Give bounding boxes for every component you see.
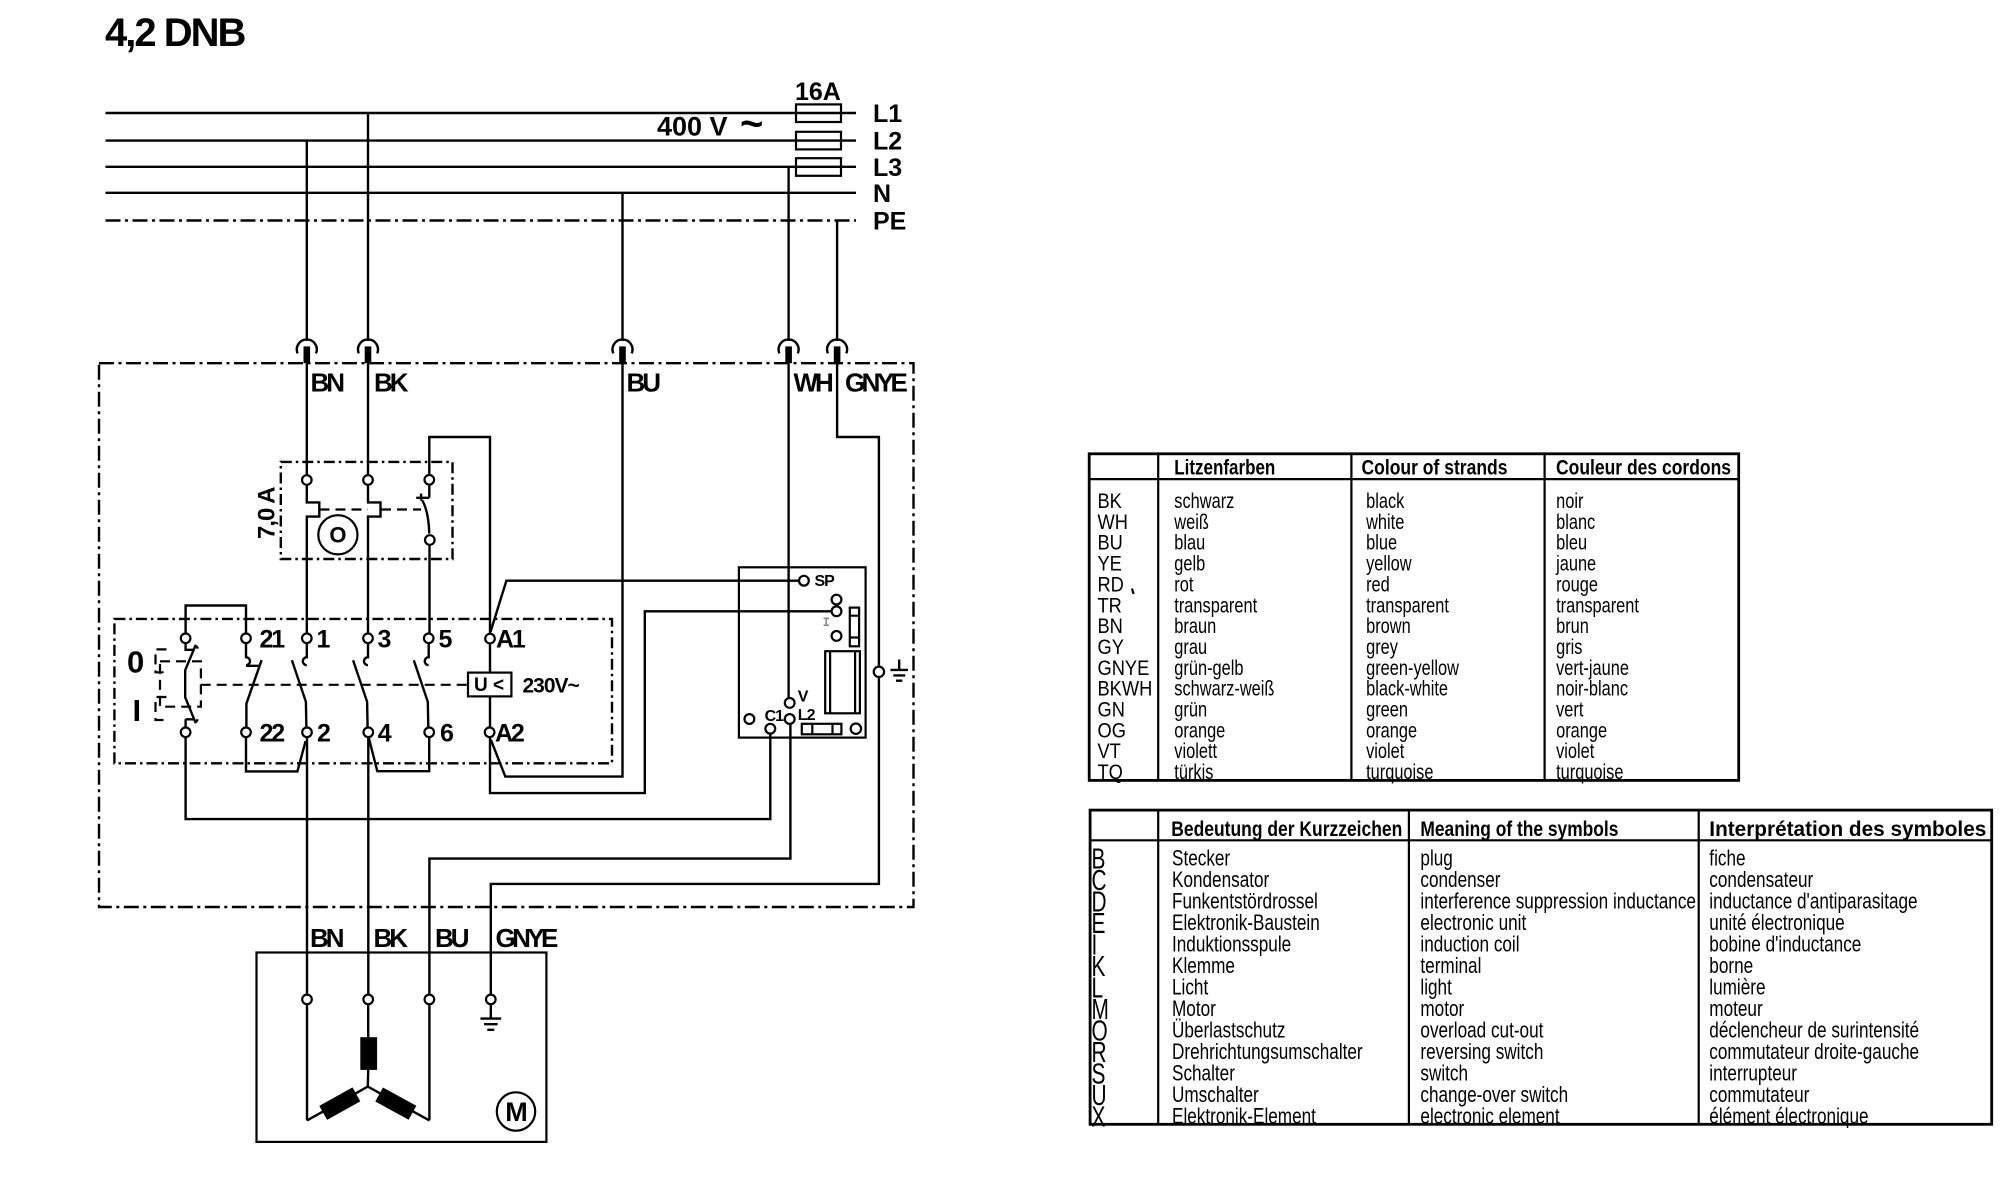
appliance enclosure dash-dot box bbox=[99, 363, 914, 907]
terminal circle C1 bbox=[765, 724, 775, 734]
earth terminal circle on GNYE bbox=[874, 667, 884, 677]
svg-text:L2: L2 bbox=[873, 128, 902, 156]
wire drop BK from L1 bbox=[367, 113, 369, 341]
electronic unit E box bbox=[739, 567, 866, 737]
svg-text:blue: blue bbox=[1366, 531, 1397, 554]
svg-text:0: 0 bbox=[127, 644, 144, 679]
svg-text:A2: A2 bbox=[495, 719, 524, 747]
terminal circle SP bbox=[799, 576, 809, 586]
terminal circle selector top bbox=[181, 634, 191, 644]
svg-text:21: 21 bbox=[260, 625, 286, 653]
svg-text:BN: BN bbox=[311, 368, 345, 398]
wire drop WH from L3 bbox=[787, 167, 789, 341]
svg-text:Litzenfarben: Litzenfarben bbox=[1174, 457, 1275, 480]
terminal circle overload BK bbox=[363, 475, 373, 485]
terminal circle 6 bbox=[424, 728, 434, 738]
terminal strip on pcb bbox=[802, 724, 842, 735]
symbol table french column bbox=[1709, 847, 1919, 1130]
power rail PE (dash-dot) bbox=[106, 219, 857, 221]
svg-text:Colour of strands: Colour of strands bbox=[1362, 457, 1508, 480]
terminal circle selector bottom bbox=[181, 728, 191, 738]
colour table column lines bbox=[1158, 454, 1544, 781]
svg-text:L1: L1 bbox=[873, 100, 902, 128]
colour code table frame bbox=[1089, 454, 1739, 781]
svg-text:schwarz: schwarz bbox=[1174, 489, 1234, 512]
winding (vertical, filled) bbox=[360, 1037, 377, 1070]
svg-text:1: 1 bbox=[317, 625, 331, 653]
terminal circle L2 bbox=[785, 714, 795, 724]
power rail L2 bbox=[106, 139, 857, 141]
plug connector B2 (BK) bbox=[358, 339, 378, 363]
jumper 22 to 2 bbox=[246, 737, 306, 771]
svg-text:Elektronik-Element: Elektronik-Element bbox=[1172, 1105, 1316, 1130]
motor symbol circle M bbox=[497, 1092, 535, 1130]
jumper 4 to 6 bbox=[369, 737, 430, 771]
symbol table german column bbox=[1172, 847, 1363, 1130]
colour table codes column bbox=[1098, 490, 1153, 785]
svg-text:violet: violet bbox=[1556, 739, 1595, 762]
terminal circle 21 bbox=[241, 634, 251, 644]
svg-text:Interprétation des symboles: Interprétation des symboles bbox=[1709, 817, 1986, 841]
symbol table column lines bbox=[1158, 810, 1699, 1124]
terminal circle mid spare bbox=[832, 631, 842, 641]
svg-text:green-yellow: green-yellow bbox=[1366, 656, 1459, 679]
wire contact 2 to motor BN bbox=[306, 737, 308, 995]
svg-text:N: N bbox=[873, 180, 891, 208]
svg-text:L3: L3 bbox=[873, 154, 902, 182]
plug connector B5 (GNYE) bbox=[827, 339, 847, 363]
winding (left diagonal, filled) bbox=[319, 1087, 360, 1119]
terminal circle 22 bbox=[241, 728, 251, 738]
symbol meaning table frame bbox=[1090, 810, 1992, 1124]
wire BU to A2 bbox=[491, 363, 623, 776]
trip indicator circle O bbox=[318, 515, 357, 554]
svg-text:PE: PE bbox=[873, 208, 906, 236]
svg-text:GNYE: GNYE bbox=[496, 923, 559, 953]
svg-text:M: M bbox=[505, 1097, 528, 1127]
wire drop BN from L2 bbox=[306, 141, 308, 341]
thermal element (BK phase) bbox=[368, 485, 381, 634]
wire selector bottom to C1 bbox=[186, 734, 771, 820]
earth symbol at electronic unit bbox=[891, 660, 909, 681]
wire BK into overload bbox=[367, 363, 369, 475]
svg-text:black: black bbox=[1366, 489, 1405, 512]
colour table french column bbox=[1555, 489, 1639, 784]
wire overload NC contact to A1 bbox=[429, 437, 490, 634]
svg-text:WH: WH bbox=[794, 368, 834, 398]
svg-text:O: O bbox=[329, 523, 346, 548]
selector switch blade bbox=[185, 643, 197, 727]
NC trip contact seat bbox=[416, 485, 429, 498]
svg-text:V: V bbox=[798, 689, 809, 706]
fuse F3 L3 bbox=[796, 158, 841, 176]
svg-text:vert-jaune: vert-jaune bbox=[1556, 656, 1629, 679]
mechanical link dashed line to U-coil bbox=[201, 684, 468, 686]
motor terminal BU bbox=[425, 995, 435, 1005]
terminal circle 1 bbox=[302, 634, 312, 644]
terminal circle left spare bbox=[745, 714, 755, 724]
contact 3-4 blade bbox=[353, 660, 368, 727]
motor box M bbox=[257, 953, 547, 1142]
power rail N bbox=[106, 192, 857, 194]
svg-text:Meaning of the symbols: Meaning of the symbols bbox=[1420, 817, 1618, 841]
motor terminal BK bbox=[363, 995, 373, 1005]
NC trip contact blade bbox=[422, 500, 429, 533]
wire WH to terminal V bbox=[787, 363, 789, 698]
colour table german column bbox=[1173, 489, 1274, 784]
motor winding leg BU bbox=[428, 1004, 430, 1120]
wire L2 to motor BU bbox=[429, 724, 790, 995]
motor winding leg BN bbox=[306, 1004, 308, 1120]
svg-text:A1: A1 bbox=[496, 625, 526, 653]
svg-text:4: 4 bbox=[378, 719, 392, 747]
plug connector B3 (BU) bbox=[613, 339, 633, 363]
wire NC bottom to contact 5 bbox=[428, 545, 430, 634]
star point diagonals bbox=[307, 1087, 429, 1121]
thermal element (BN phase) bbox=[307, 485, 320, 634]
svg-text:230V~: 230V~ bbox=[523, 675, 580, 698]
svg-text:BN: BN bbox=[310, 923, 344, 953]
svg-text:5: 5 bbox=[439, 625, 453, 653]
motor terminal GNYE bbox=[486, 995, 496, 1005]
dashed bracket position I bbox=[156, 697, 167, 720]
winding (right diagonal, filled) bbox=[375, 1087, 416, 1119]
undervoltage release coil U< bbox=[468, 673, 511, 697]
svg-text:violet: violet bbox=[1366, 739, 1405, 762]
svg-text:grün: grün bbox=[1174, 698, 1207, 721]
contact 1-2 (NO) stub and hook bbox=[303, 643, 307, 665]
contact 5-6 (NO) stub and hook bbox=[425, 643, 429, 665]
power rail L3 bbox=[106, 166, 857, 168]
wire BN into overload bbox=[306, 363, 308, 475]
terminal circle bottom right bbox=[851, 724, 861, 734]
wire A2 to electronic unit bbox=[490, 611, 832, 793]
dashed mechanism rectangle bbox=[160, 661, 201, 706]
svg-text:Couleur des cordons: Couleur des cordons bbox=[1556, 457, 1731, 480]
svg-text:noir: noir bbox=[1556, 489, 1583, 512]
wire contact 4 to motor BK bbox=[367, 737, 369, 995]
relay component on pcb bbox=[825, 651, 860, 713]
symbol table english column bbox=[1420, 847, 1696, 1130]
wire A1 to SP bbox=[491, 581, 799, 632]
svg-text:3: 3 bbox=[378, 625, 392, 653]
svg-text:grün-gelb: grün-gelb bbox=[1174, 656, 1243, 679]
svg-text:22: 22 bbox=[260, 719, 285, 747]
svg-text:élément électronique: élément électronique bbox=[1709, 1105, 1868, 1130]
svg-text:16A: 16A bbox=[795, 78, 841, 106]
terminal circle A2 bbox=[485, 728, 495, 738]
wire A1 to undervoltage coil bbox=[489, 643, 491, 672]
fuse F2 L2 bbox=[796, 132, 841, 150]
power rail L1 bbox=[106, 112, 857, 114]
svg-text:GNYE: GNYE bbox=[845, 368, 908, 398]
fuse F1 L1 bbox=[796, 104, 841, 122]
wire drop GNYE from PE bbox=[836, 221, 838, 342]
stray tick near TR bbox=[1132, 589, 1134, 595]
colour table header line bbox=[1089, 478, 1739, 480]
terminal circle upper spare bbox=[832, 595, 842, 605]
svg-text:TQ: TQ bbox=[1098, 761, 1123, 784]
svg-text:400 V: 400 V bbox=[657, 112, 728, 142]
terminal circle overload NC top bbox=[425, 475, 435, 485]
svg-text:turquoise: turquoise bbox=[1366, 760, 1433, 783]
svg-text:türkis: türkis bbox=[1174, 760, 1213, 783]
svg-text:L2: L2 bbox=[798, 707, 816, 724]
terminal circle overload BN bbox=[302, 475, 312, 485]
wire GNYE to motor PE bbox=[491, 363, 879, 994]
svg-text:electronic element: electronic element bbox=[1420, 1105, 1560, 1130]
terminal circle A2 feed bbox=[832, 606, 842, 616]
contact 1-2 blade bbox=[292, 660, 307, 727]
symbol table header line bbox=[1090, 839, 1992, 841]
contact 21-22 (NC) stub and hook bbox=[246, 643, 260, 666]
svg-text:BK: BK bbox=[374, 923, 409, 953]
jumper selector top to terminal 21 bbox=[186, 606, 246, 634]
svg-text:SP: SP bbox=[815, 573, 836, 590]
svg-text:I: I bbox=[133, 693, 142, 728]
contact 21-22 blade bbox=[246, 660, 261, 727]
NC trip contact tick bbox=[420, 494, 422, 501]
svg-text:BK: BK bbox=[374, 368, 409, 398]
wire drop BU from N bbox=[621, 193, 623, 341]
contact 3-4 (NO) stub and hook bbox=[364, 643, 368, 665]
terminal circle 3 bbox=[363, 634, 373, 644]
fuse element on pcb bbox=[850, 608, 859, 647]
motor winding leg BK bbox=[367, 1004, 370, 1086]
plug connector B1 (BN) bbox=[297, 339, 317, 363]
colour table english column bbox=[1365, 489, 1459, 784]
terminal circle 4 bbox=[364, 728, 374, 738]
svg-text:~: ~ bbox=[740, 102, 763, 146]
switch block S (dash-dot box) bbox=[114, 619, 612, 763]
svg-text:U <: U < bbox=[474, 675, 504, 696]
svg-text:X: X bbox=[1092, 1101, 1106, 1133]
svg-text:turquoise: turquoise bbox=[1556, 760, 1623, 783]
svg-text:7,0 A: 7,0 A bbox=[254, 487, 281, 539]
svg-text:2: 2 bbox=[317, 719, 331, 747]
symbol table letter column bbox=[1092, 843, 1109, 1133]
terminal circle V bbox=[785, 698, 795, 708]
wire coil to A2 bbox=[489, 696, 491, 727]
svg-text:violett: violett bbox=[1174, 739, 1217, 762]
dashed bracket position 0 bbox=[156, 649, 167, 672]
contact 5-6 blade bbox=[414, 660, 429, 727]
svg-text:BU: BU bbox=[435, 923, 469, 953]
mechanical trip dashed link bbox=[320, 508, 422, 510]
earth symbol motor bbox=[480, 1004, 501, 1030]
svg-text:C1: C1 bbox=[765, 708, 785, 725]
svg-text:green: green bbox=[1366, 698, 1408, 721]
plug connector B4 (WH) bbox=[779, 339, 799, 363]
svg-text:blau: blau bbox=[1174, 531, 1205, 554]
terminal circle 5 bbox=[424, 634, 434, 644]
svg-text:vert: vert bbox=[1556, 698, 1584, 721]
terminal circle overload NC bottom bbox=[425, 535, 435, 545]
motor terminal BN bbox=[302, 995, 312, 1005]
terminal circle A1 bbox=[485, 634, 495, 644]
overload cut-out O box (dash-dot) bbox=[281, 462, 453, 559]
svg-text:bleu: bleu bbox=[1556, 531, 1587, 554]
svg-text:6: 6 bbox=[440, 719, 454, 747]
svg-text:4,2 DNB: 4,2 DNB bbox=[105, 11, 245, 55]
svg-text:Bedeutung der Kurzzeichen: Bedeutung der Kurzzeichen bbox=[1171, 817, 1402, 841]
svg-text:BU: BU bbox=[627, 368, 661, 398]
terminal circle 2 bbox=[302, 728, 312, 738]
small grey I mark bbox=[824, 618, 830, 625]
